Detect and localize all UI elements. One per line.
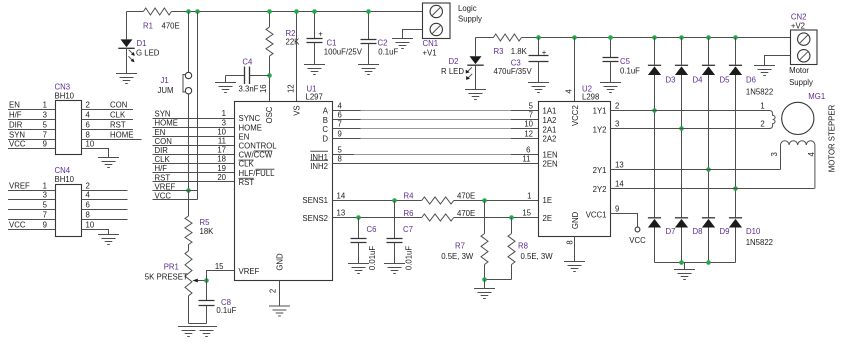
ground C6 <box>348 264 369 274</box>
svg-text:VCC: VCC <box>9 140 26 149</box>
svg-text:R3: R3 <box>494 47 504 56</box>
capacitor C1 <box>307 12 363 65</box>
ground C2 <box>358 65 379 75</box>
svg-text:20: 20 <box>217 173 226 182</box>
resistor R2 <box>266 12 300 102</box>
ground D2 <box>465 90 486 100</box>
svg-text:4: 4 <box>86 111 91 120</box>
svg-text:C1: C1 <box>327 39 337 48</box>
svg-text:1: 1 <box>760 101 764 110</box>
svg-text:2Y1: 2Y1 <box>593 166 607 175</box>
wire VCC2 stub <box>574 38 576 102</box>
ground U2 <box>564 262 585 272</box>
svg-text:5: 5 <box>43 201 48 210</box>
svg-text:0.1uF: 0.1uF <box>216 306 236 315</box>
svg-text:2: 2 <box>86 182 90 191</box>
svg-text:CW/CCW: CW/CCW <box>239 151 273 160</box>
svg-text:1: 1 <box>43 101 47 110</box>
wire CN3 pin 10 <box>82 140 109 158</box>
svg-text:470E: 470E <box>457 191 475 200</box>
wire CN3 pin 1 <box>8 101 56 110</box>
label MOTOR STEPPER <box>827 104 836 172</box>
pin 16 label OSC <box>259 84 268 93</box>
svg-text:INH2: INH2 <box>310 162 328 171</box>
U2 GND pin 8 stub <box>565 237 574 262</box>
svg-text:HOME: HOME <box>239 123 262 132</box>
svg-text:2: 2 <box>269 289 278 293</box>
ground C5 <box>600 83 621 93</box>
svg-text:5: 5 <box>529 102 534 111</box>
svg-text:0.5E, 3W: 0.5E, 3W <box>441 252 474 261</box>
svg-text:D6: D6 <box>746 75 756 84</box>
svg-text:13: 13 <box>337 209 346 218</box>
svg-text:D2: D2 <box>449 57 459 66</box>
svg-text:GND: GND <box>276 253 285 271</box>
svg-text:4: 4 <box>564 89 573 94</box>
svg-text:VREF: VREF <box>9 182 30 191</box>
svg-text:SENS1: SENS1 <box>302 196 328 205</box>
ground U1 <box>269 306 290 316</box>
svg-text:DIR: DIR <box>155 146 169 155</box>
svg-text:C6: C6 <box>367 225 377 234</box>
svg-text:13: 13 <box>615 161 624 170</box>
wire bottom rail ground stem <box>684 263 686 270</box>
junction J1 / VREF net <box>186 188 191 193</box>
svg-text:17: 17 <box>217 146 226 155</box>
op-amp U1 L297 body <box>235 85 333 281</box>
svg-text:0.5E, 3W: 0.5E, 3W <box>521 252 554 261</box>
svg-text:6: 6 <box>526 146 530 155</box>
svg-text:RST: RST <box>110 120 126 129</box>
wire INH1 <box>333 146 539 155</box>
svg-text:HOME: HOME <box>110 130 133 139</box>
wire CN4 pin 5 <box>8 201 56 210</box>
svg-text:SYNC: SYNC <box>239 114 261 123</box>
svg-text:8: 8 <box>565 240 574 244</box>
svg-text:12: 12 <box>286 84 295 93</box>
junction C4 / OSC <box>267 73 272 78</box>
junction C5 / rail <box>608 35 613 40</box>
ground CN2 <box>754 66 775 76</box>
svg-text:1E: 1E <box>543 196 553 205</box>
wire net CON <box>153 137 235 146</box>
svg-text:RST: RST <box>155 173 171 182</box>
svg-text:DIR: DIR <box>9 121 23 130</box>
svg-text:10: 10 <box>86 140 95 149</box>
svg-text:10: 10 <box>86 221 95 230</box>
svg-text:22K: 22K <box>286 38 301 47</box>
connector CN3 <box>55 82 82 154</box>
connector CN1 <box>423 3 482 58</box>
wire CN4 pin 6 <box>82 201 128 210</box>
junction VCC column / rail <box>195 9 200 14</box>
wire R7 R8 bottom <box>485 279 512 281</box>
inductor motor winding <box>770 141 816 189</box>
svg-text:VCC: VCC <box>9 221 26 230</box>
svg-text:D7: D7 <box>666 227 676 236</box>
svg-text:Logic: Logic <box>458 4 477 13</box>
diode D5 1N5822 <box>702 38 730 219</box>
resistor R6 <box>404 209 476 221</box>
junction D5 column / rail <box>706 35 711 40</box>
capacitor C7 <box>387 201 414 271</box>
svg-text:CLK: CLK <box>239 160 255 169</box>
svg-text:2E: 2E <box>543 214 553 223</box>
LED D1 <box>118 12 159 74</box>
svg-text:0.01uF: 0.01uF <box>405 246 414 271</box>
junction D5 column / output wire <box>706 167 711 172</box>
svg-text:0.1uF: 0.1uF <box>378 48 398 57</box>
wire CN3 pin 9 <box>8 140 56 149</box>
junction D9 column / bottom rail <box>706 260 711 265</box>
svg-text:2A1: 2A1 <box>543 125 557 134</box>
svg-text:5K PRESET: 5K PRESET <box>145 272 188 281</box>
ground C3 <box>528 83 549 93</box>
svg-text:C: C <box>322 125 328 134</box>
svg-text:10: 10 <box>524 120 533 129</box>
svg-text:EN: EN <box>155 128 166 137</box>
svg-text:1.8K: 1.8K <box>511 47 528 56</box>
svg-text:D9: D9 <box>720 227 730 236</box>
wire CN3 pin 4 <box>82 110 134 119</box>
wire CN3 pin 3 <box>8 111 56 120</box>
wire VS column <box>296 12 298 102</box>
wire 2Y1 <box>611 161 781 170</box>
svg-text:CLK: CLK <box>155 155 171 164</box>
svg-text:L297: L297 <box>306 93 323 102</box>
wire net H/F <box>153 164 235 173</box>
svg-text:470E: 470E <box>457 209 475 218</box>
potentiometer PR1 5K PRESET <box>145 251 207 324</box>
svg-text:15: 15 <box>522 209 531 218</box>
wire VREF pin 15 <box>207 262 235 281</box>
svg-text:9: 9 <box>43 140 47 149</box>
ground C8 <box>196 327 217 337</box>
svg-text:11: 11 <box>522 155 530 164</box>
svg-text:2EN: 2EN <box>543 160 558 169</box>
svg-text:4: 4 <box>338 102 343 111</box>
svg-text:C5: C5 <box>620 57 631 66</box>
junction C2 / rail <box>366 9 371 14</box>
ground CN4 <box>98 235 119 245</box>
svg-text:OSC: OSC <box>265 106 274 123</box>
wire logic supply rail <box>127 11 423 13</box>
svg-text:VCC: VCC <box>629 236 646 245</box>
motor MG1 stepper <box>760 92 825 134</box>
capacitor C4 <box>226 57 270 93</box>
svg-text:5: 5 <box>43 121 48 130</box>
svg-text:8: 8 <box>86 211 90 220</box>
svg-text:JUM: JUM <box>158 86 174 95</box>
junction C1 / rail <box>312 9 317 14</box>
wire 2Y2 <box>611 180 815 189</box>
svg-text:H/F: H/F <box>155 164 168 173</box>
ground PR1 <box>178 327 199 337</box>
pin 12 label VS <box>286 84 295 93</box>
resistor R8 <box>508 218 553 280</box>
U1 right pin names <box>239 106 329 276</box>
wire CN4 pin 3 <box>8 191 56 200</box>
svg-text:1A1: 1A1 <box>543 107 557 116</box>
svg-text:1: 1 <box>527 192 531 201</box>
junction D4 column / rail <box>679 35 684 40</box>
junction PR1 wiper / C8 <box>204 278 209 283</box>
svg-text:MOTOR STEPPER: MOTOR STEPPER <box>827 104 836 172</box>
diode D4 1N5822 <box>675 38 703 219</box>
wire VCC column <box>197 12 199 200</box>
connector CN2 <box>789 12 817 87</box>
svg-text:8: 8 <box>86 131 90 140</box>
svg-text:+: + <box>542 48 547 57</box>
svg-text:CLK: CLK <box>110 110 126 119</box>
svg-text:9: 9 <box>43 221 47 230</box>
svg-text:+: + <box>318 30 323 39</box>
diode D9 1N5822 <box>702 218 730 263</box>
ground C1 <box>304 65 325 75</box>
svg-text:Supply: Supply <box>458 14 482 23</box>
svg-text:R7: R7 <box>455 241 465 250</box>
svg-text:470E: 470E <box>162 21 180 30</box>
svg-text:18K: 18K <box>200 227 215 236</box>
svg-text:3: 3 <box>43 111 47 120</box>
svg-text:15: 15 <box>215 262 224 271</box>
svg-text:VREF: VREF <box>155 182 176 191</box>
svg-text:SYN: SYN <box>155 110 171 119</box>
svg-text:12: 12 <box>524 130 533 139</box>
wire CN3 pin 8 <box>82 130 142 139</box>
resistor R3 <box>493 34 527 56</box>
svg-text:D5: D5 <box>720 75 731 84</box>
wire CN4 pin 2 <box>82 182 128 191</box>
svg-text:Motor: Motor <box>789 66 809 75</box>
svg-text:L298: L298 <box>582 93 599 102</box>
svg-text:470uF/35V: 470uF/35V <box>494 67 533 76</box>
svg-text:C7: C7 <box>403 225 413 234</box>
junction VCC2 stub / rail <box>572 35 577 40</box>
svg-text:D10: D10 <box>746 227 761 236</box>
ground CN1 <box>392 39 413 49</box>
wire CN3 pin 5 <box>8 121 56 130</box>
diode D8 1N5822 <box>675 218 703 263</box>
svg-text:7: 7 <box>529 111 533 120</box>
wire net HOME <box>153 118 235 127</box>
capacitor C2 <box>361 12 399 65</box>
svg-text:1N5822: 1N5822 <box>746 87 773 96</box>
svg-text:EN: EN <box>239 132 250 141</box>
svg-text:H/F: H/F <box>9 111 22 120</box>
svg-text:SYN: SYN <box>9 131 25 140</box>
svg-text:3: 3 <box>222 118 226 127</box>
pin 4 label VCC2 <box>564 89 573 94</box>
svg-text:14: 14 <box>615 180 624 189</box>
svg-text:8: 8 <box>338 155 342 164</box>
svg-text:VCC: VCC <box>155 191 172 200</box>
capacitor C3 <box>494 38 549 83</box>
svg-text:R4: R4 <box>404 191 415 200</box>
svg-text:CN3: CN3 <box>55 82 71 91</box>
svg-text:10: 10 <box>217 127 226 136</box>
svg-text:CON: CON <box>110 100 127 109</box>
wire net RST <box>153 173 235 182</box>
junction VS / rail <box>294 9 299 14</box>
svg-text:R6: R6 <box>404 209 414 218</box>
wire CN3 pin 7 <box>8 131 56 140</box>
svg-text:9: 9 <box>615 205 619 214</box>
junction D3 column / rail <box>652 35 657 40</box>
svg-text:1EN: 1EN <box>543 151 558 160</box>
wire phase A <box>333 102 539 111</box>
svg-text:D8: D8 <box>693 227 703 236</box>
svg-text:11: 11 <box>218 137 226 146</box>
junction C7 / SENS1 <box>392 198 397 203</box>
wire CN3 pin 2 <box>82 100 134 109</box>
capacitor C5 <box>603 38 641 83</box>
svg-text:R5: R5 <box>200 218 211 227</box>
svg-text:R LED: R LED <box>441 67 464 76</box>
svg-text:16: 16 <box>259 84 268 93</box>
jumper J1 <box>158 72 192 95</box>
svg-text:2Y2: 2Y2 <box>593 185 607 194</box>
svg-text:7: 7 <box>338 120 342 129</box>
diode D6 1N5822 <box>729 38 773 219</box>
junction D6 column / output wire <box>733 186 738 191</box>
svg-text:SENS2: SENS2 <box>302 214 328 223</box>
junction D3 column / output wire <box>652 108 657 113</box>
svg-text:4: 4 <box>86 191 91 200</box>
svg-text:VREF: VREF <box>239 267 260 276</box>
junction R2 / rail <box>267 9 272 14</box>
wire 1Y2 <box>611 120 767 129</box>
wire net EN <box>153 127 235 136</box>
svg-text:0.01uF: 0.01uF <box>368 246 377 271</box>
svg-text:2: 2 <box>760 120 764 129</box>
wire net DIR <box>153 146 235 155</box>
svg-text:CON: CON <box>155 137 172 146</box>
svg-text:G LED: G LED <box>136 49 160 58</box>
svg-text:CN1: CN1 <box>423 39 439 48</box>
capacitor C6 <box>351 218 377 271</box>
U1 GND pin 2 stub <box>269 281 280 307</box>
svg-text:MG1: MG1 <box>808 92 825 101</box>
svg-text:GND: GND <box>571 211 580 229</box>
svg-text:5: 5 <box>338 146 343 155</box>
junction R8 / SENS2 <box>509 215 514 220</box>
svg-text:RST: RST <box>239 178 255 187</box>
diode D10 1N5822 <box>729 218 773 263</box>
svg-text:C2: C2 <box>378 39 388 48</box>
wire net SYN <box>153 109 235 118</box>
junction R7 / ground wire <box>482 277 487 282</box>
wire CN4 pin 1 <box>8 182 56 191</box>
resistor R5 <box>185 191 214 251</box>
svg-text:0.1uF: 0.1uF <box>620 66 640 75</box>
wire CN4 pin 9 <box>8 221 56 230</box>
svg-text:6: 6 <box>86 201 90 210</box>
svg-text:1: 1 <box>43 182 47 191</box>
svg-text:HLF/FULL: HLF/FULL <box>239 169 276 178</box>
svg-text:+V1: +V1 <box>423 49 437 58</box>
svg-text:D3: D3 <box>666 75 676 84</box>
svg-text:R1: R1 <box>143 21 153 30</box>
wire diode bottom rail <box>655 262 736 264</box>
U2 right pin names <box>586 107 607 220</box>
svg-text:3: 3 <box>43 191 47 200</box>
wire CN4 pin 4 <box>82 191 128 200</box>
wire phase D <box>333 130 539 139</box>
svg-text:18: 18 <box>217 155 226 164</box>
svg-text:VS: VS <box>293 105 302 115</box>
wire SENS1 <box>333 192 539 201</box>
svg-text:3.3nF: 3.3nF <box>239 85 259 94</box>
junction D6 column / rail <box>733 35 738 40</box>
svg-text:9: 9 <box>338 130 342 139</box>
svg-text:B: B <box>323 116 328 125</box>
wire INH2 <box>333 155 539 164</box>
wire CN1 pin2 to ground <box>403 30 423 39</box>
LED D2 <box>441 38 484 90</box>
ground C4 <box>215 83 236 93</box>
svg-text:EN: EN <box>9 101 20 110</box>
capacitor C8 <box>199 281 237 324</box>
diode D7 1N5822 <box>648 218 676 263</box>
wire SENS2 <box>333 209 539 218</box>
junction C6 / SENS2 <box>356 215 361 220</box>
ground R7 R8 <box>474 289 495 299</box>
wire net VREF <box>153 182 198 191</box>
svg-text:4: 4 <box>807 151 816 156</box>
junction D8 column / bottom rail <box>679 260 684 265</box>
node VCC <box>629 227 646 245</box>
op-amp U2 L298 body <box>539 85 611 237</box>
svg-text:1A2: 1A2 <box>543 116 557 125</box>
U2 left pin names <box>543 107 558 224</box>
svg-text:VCC1: VCC1 <box>586 210 607 219</box>
svg-text:14: 14 <box>337 192 346 201</box>
svg-text:CN4: CN4 <box>55 166 71 175</box>
svg-text:100uF/25V: 100uF/25V <box>324 48 363 57</box>
svg-text:7: 7 <box>43 131 47 140</box>
svg-text:BH10: BH10 <box>55 175 75 184</box>
wire CN4 pin 7 <box>8 211 56 220</box>
svg-text:A: A <box>323 106 329 115</box>
svg-text:PR1: PR1 <box>164 263 179 272</box>
junction D4 column / output wire <box>679 126 684 131</box>
ground CN3 <box>98 158 119 168</box>
svg-text:HOME: HOME <box>155 119 178 128</box>
svg-text:6: 6 <box>86 121 90 130</box>
connector CN4 <box>55 166 82 237</box>
wire VCC1 pin 9 <box>611 205 638 228</box>
svg-text:+V2: +V2 <box>791 21 805 30</box>
wire net CLK <box>153 155 235 164</box>
svg-text:1Y1: 1Y1 <box>593 107 607 116</box>
svg-text:D1: D1 <box>137 39 147 48</box>
wire CN4 pin 10 <box>82 221 109 235</box>
wire sense ground stem <box>484 280 486 289</box>
svg-text:D4: D4 <box>693 75 704 84</box>
wire CN3 pin 6 <box>82 120 134 129</box>
svg-text:D: D <box>322 135 328 144</box>
wire CN4 pin 8 <box>82 211 128 220</box>
junction C3 / rail <box>536 35 541 40</box>
wire J1 column <box>188 12 190 191</box>
svg-text:Supply: Supply <box>789 78 813 87</box>
svg-text:3: 3 <box>770 152 779 156</box>
resistor R7 <box>441 201 488 280</box>
wire phase C <box>333 120 539 129</box>
svg-text:J1: J1 <box>161 76 169 85</box>
svg-text:2: 2 <box>615 102 619 111</box>
